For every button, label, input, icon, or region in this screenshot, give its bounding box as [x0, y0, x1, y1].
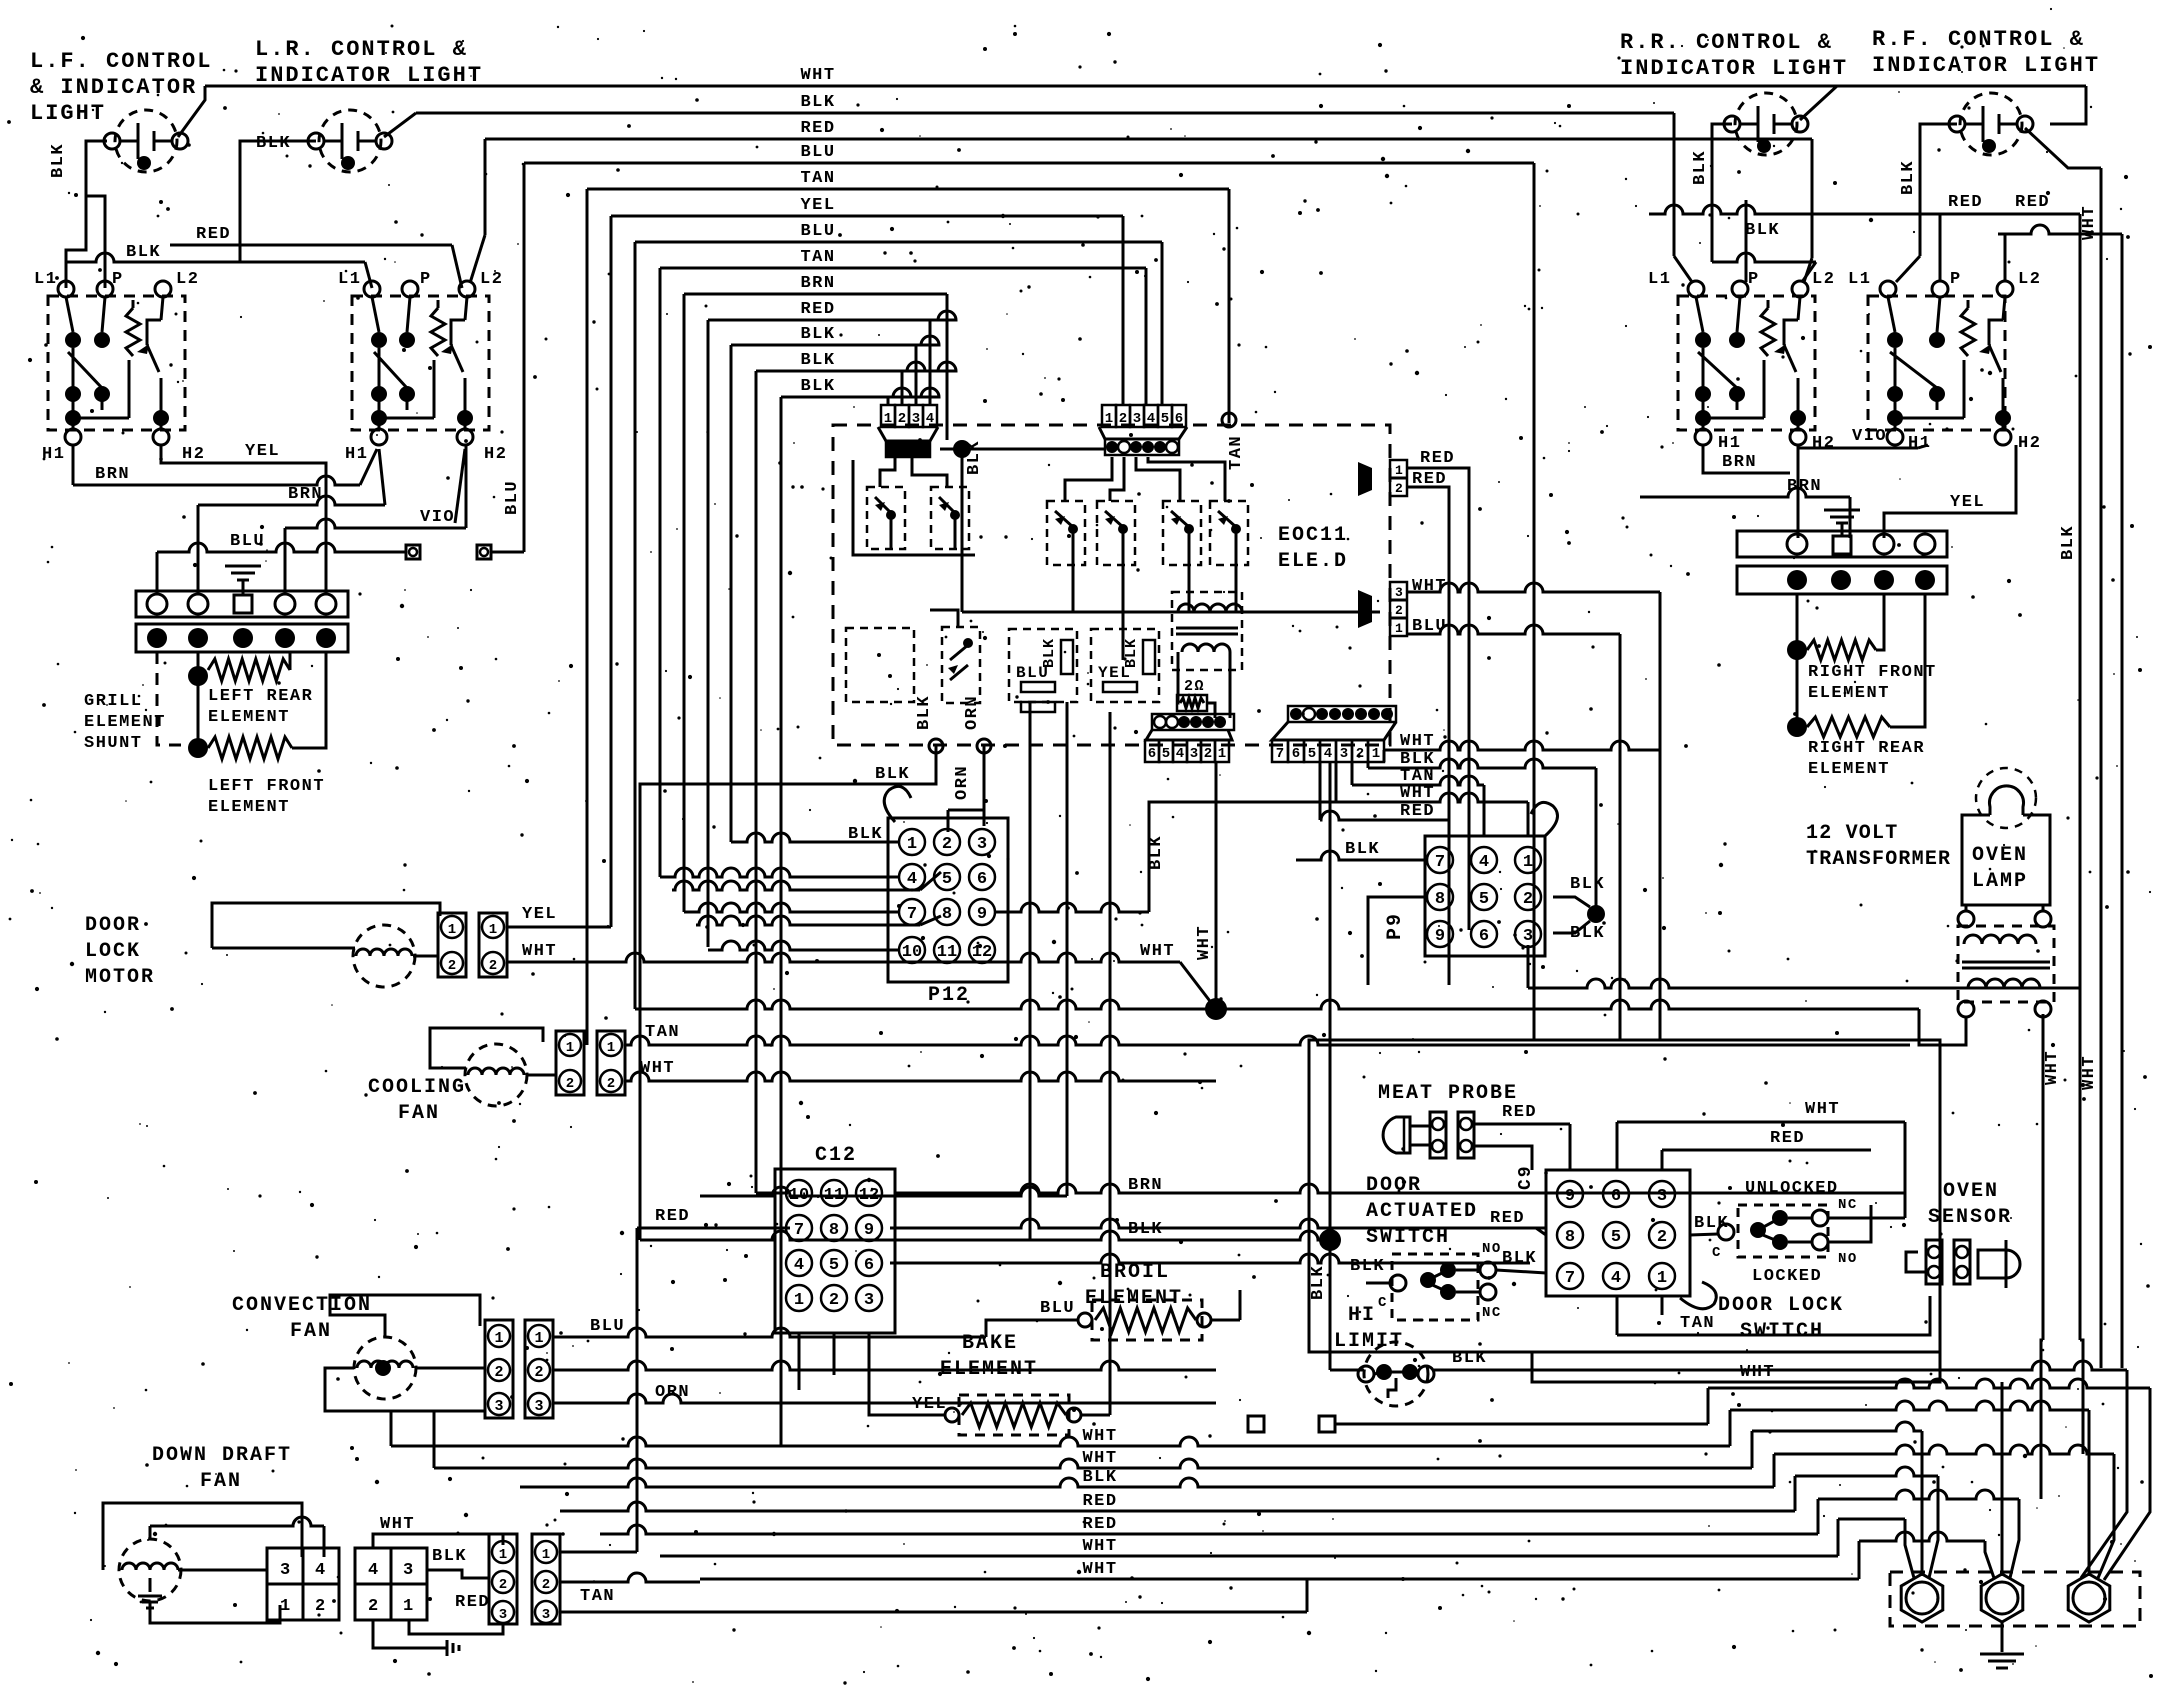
- wire fan coil link: [526, 1074, 556, 1077]
- svg-text:L.R. CONTROL &: L.R. CONTROL &: [255, 37, 468, 62]
- label DOOR LOCK SWITCH: [1718, 1294, 1844, 1343]
- svg-text:P: P: [112, 270, 124, 289]
- svg-text:4: 4: [1324, 746, 1332, 762]
- wire C9 pin1 down: [1661, 1296, 1664, 1315]
- svg-text:2: 2: [829, 1291, 839, 1310]
- svg-text:6: 6: [1148, 746, 1156, 762]
- svg-text:WHT: WHT: [380, 1515, 415, 1534]
- wire BLK bus right drop3: [915, 345, 918, 404]
- oven lamp bulb: [1976, 768, 2036, 828]
- wire C12 pin1 down: [798, 1333, 801, 1390]
- label L.F. CONTROL & INDICATOR LIGHT: [30, 49, 212, 126]
- label MEAT PROBE: [1378, 1082, 1518, 1105]
- svg-text:2: 2: [534, 1364, 543, 1381]
- wire P9 lasso: [1531, 802, 1558, 836]
- svg-text:1: 1: [542, 1547, 550, 1563]
- svg-text:5: 5: [942, 870, 952, 889]
- svg-text:INDICATOR LIGHT: INDICATOR LIGHT: [1620, 56, 1848, 81]
- svg-text:1: 1: [403, 1597, 415, 1616]
- wire top bus TAN y=268: [660, 248, 1146, 268]
- svg-text:SHUNT: SHUNT: [84, 734, 143, 753]
- motor door lock: [353, 925, 415, 987]
- svg-text:BLK: BLK: [126, 243, 161, 262]
- lamp L.R. indicator: [308, 110, 392, 172]
- wire R.R. lamp left wire: [1712, 124, 1732, 190]
- wire C9 pin6 up: [1616, 1122, 1619, 1170]
- svg-text:L1: L1: [34, 270, 57, 289]
- label RED C9: [1490, 1209, 1525, 1228]
- svg-text:C: C: [1378, 1295, 1388, 1311]
- oven sensor plug: [1954, 1240, 1970, 1284]
- label L.R. CONTROL & INDICATOR LIGHT: [255, 37, 483, 88]
- connector door lock B: [479, 913, 507, 977]
- resistor RIGHT FRONT ELEMENT: [1807, 594, 1884, 660]
- wire TAN bus right drop: [1222, 189, 1246, 470]
- wire down draft loop2: [150, 1517, 324, 1557]
- svg-text:C: C: [1712, 1245, 1722, 1261]
- wire R.F. lamp left: [1896, 124, 1957, 282]
- wire VIO: [285, 445, 466, 594]
- svg-text:WHT: WHT: [1140, 942, 1175, 961]
- wire RED C12: [637, 1228, 790, 1552]
- wire top bus WHT y=86: [205, 66, 2086, 86]
- svg-text:1: 1: [907, 835, 917, 854]
- wire WHT door lock: [507, 942, 1216, 1009]
- svg-text:TRANSFORMER: TRANSFORMER: [1806, 848, 1951, 871]
- labels door lock NC NO C: [1712, 1197, 1858, 1267]
- label COOLING FAN: [368, 1076, 466, 1125]
- wire R.R. lamp right to WHT bus: [1800, 86, 1837, 120]
- label OVEN SENSOR: [1928, 1180, 2012, 1229]
- wire WHT long mid: [1216, 1000, 1966, 1045]
- wire EOC coil vertical 3: [1109, 712, 1112, 1415]
- wire EOC out drops: [1320, 750, 1384, 820]
- terminal strip left upper: [136, 591, 348, 617]
- label GRILL ELEMENT SHUNT: [84, 692, 166, 753]
- wire C12 pin2 down: [833, 1333, 836, 1375]
- wire RR P up: [1745, 200, 1748, 282]
- wire top bus RED y=320: [708, 300, 956, 320]
- svg-text:1: 1: [494, 1330, 503, 1347]
- svg-text:BLK: BLK: [875, 765, 910, 784]
- svg-text:TAN: TAN: [645, 1023, 680, 1042]
- svg-text:2: 2: [1523, 890, 1533, 909]
- wire hi limit BLK long: [1520, 1361, 2127, 1578]
- svg-text:2: 2: [315, 1597, 327, 1616]
- svg-text:RIGHT REAR: RIGHT REAR: [1808, 739, 1925, 758]
- connector down draft A: [267, 1548, 339, 1620]
- svg-text:DOOR LOCK: DOOR LOCK: [1718, 1294, 1844, 1317]
- meat probe jack: [1430, 1112, 1446, 1158]
- svg-text:6: 6: [1479, 927, 1489, 946]
- wire YEL bake: [905, 1408, 959, 1422]
- wire right vertical WHT: [2080, 168, 2101, 1368]
- svg-text:ELE.D: ELE.D: [1278, 550, 1348, 573]
- wire RED down draft: [409, 1620, 503, 1634]
- wire BRN LF-H1: [73, 445, 360, 485]
- wire squares line: [1248, 1416, 1708, 1432]
- wire TAN bottom: [560, 1579, 1307, 1612]
- wire BLK bus right drop4: [901, 371, 904, 404]
- label DOOR LOCK MOTOR: [85, 914, 155, 989]
- wire C12 pin3 down: [868, 1333, 871, 1360]
- connector down draft B: [355, 1548, 427, 1620]
- label HI LIMIT: [1334, 1304, 1404, 1353]
- svg-text:7: 7: [907, 905, 917, 924]
- svg-text:WHT: WHT: [1082, 1449, 1117, 1468]
- svg-text:3: 3: [499, 1607, 507, 1623]
- wire EOC out WHT y=750: [1384, 732, 1660, 751]
- wire BLK long: [640, 1220, 1330, 1240]
- svg-text:YEL: YEL: [912, 1395, 947, 1414]
- wire top bus BLU y=242: [635, 222, 1162, 242]
- wire EOC out RED y=820: [1320, 802, 1449, 821]
- svg-text:RED: RED: [1948, 193, 1983, 212]
- svg-text:6: 6: [1292, 746, 1300, 762]
- svg-text:4: 4: [315, 1561, 327, 1580]
- wire RR BLK link: [1712, 190, 1816, 262]
- label H1 H2 RR: [1718, 434, 1835, 453]
- label LEFT FRONT ELEMENT: [208, 777, 325, 817]
- transformer terminals: [1958, 911, 2051, 1017]
- wire to P12 pin8 diag: [696, 916, 941, 925]
- svg-text:4: 4: [926, 411, 934, 427]
- svg-text:2: 2: [1119, 411, 1127, 427]
- label TAN bottom: [580, 1587, 615, 1606]
- wire broil right: [1239, 1290, 1242, 1320]
- svg-text:WHT: WHT: [800, 66, 835, 85]
- svg-text:EOC11: EOC11: [1278, 524, 1348, 547]
- down draft ground: [138, 1578, 162, 1608]
- hex terminal 1: [1901, 1574, 1943, 1622]
- svg-text:UNLOCKED: UNLOCKED: [1745, 1179, 1839, 1198]
- svg-text:BROIL: BROIL: [1100, 1261, 1170, 1284]
- svg-text:11: 11: [937, 943, 957, 962]
- svg-text:L2: L2: [1812, 270, 1835, 289]
- label C12: [815, 1144, 857, 1167]
- wire YEL bus right drop2: [1122, 216, 1125, 404]
- junction BLK dot: [1319, 1229, 1341, 1251]
- terminal strip left lower: [136, 624, 348, 652]
- svg-text:LAMP: LAMP: [1972, 870, 2028, 893]
- label L1 P L2 RR: [1648, 270, 1835, 289]
- svg-text:LEFT FRONT: LEFT FRONT: [208, 777, 325, 796]
- svg-text:1: 1: [884, 411, 892, 427]
- svg-text:H2: H2: [182, 445, 205, 464]
- label RED meat probe: [1502, 1103, 1537, 1122]
- wire top bus BLK y=345: [731, 325, 939, 345]
- svg-text:RED: RED: [1770, 1129, 1805, 1148]
- wire C9 pin9 up: [1569, 1124, 1572, 1170]
- label 12 VOLT TRANSFORMER: [1806, 822, 1951, 871]
- svg-text:H2: H2: [2018, 434, 2041, 453]
- switch box R.F. control: [1868, 281, 2013, 445]
- label CONVECTION FAN: [232, 1294, 372, 1343]
- wire bus left vertical x=781: [780, 397, 783, 1446]
- svg-text:COOLING: COOLING: [368, 1076, 466, 1099]
- svg-text:BLK: BLK: [1082, 1468, 1117, 1487]
- svg-text:2: 2: [368, 1597, 380, 1616]
- svg-text:YEL: YEL: [1950, 493, 1985, 512]
- EOC transformer wires: [1177, 652, 1230, 718]
- wire bus left vertical x=635: [634, 242, 637, 1009]
- svg-text:WHT: WHT: [2043, 1050, 2062, 1085]
- wire BLK to P9 dot vertical: [1595, 768, 1598, 914]
- svg-text:R.F. CONTROL &: R.F. CONTROL &: [1872, 27, 2085, 52]
- svg-text:RED: RED: [1490, 1209, 1525, 1228]
- EOC 2ohm resistor: [1177, 678, 1207, 711]
- wire BLK junction EOC: [940, 440, 1105, 458]
- svg-text:3: 3: [403, 1561, 415, 1580]
- svg-text:C9: C9: [1516, 1164, 1536, 1190]
- svg-text:7: 7: [794, 1221, 804, 1240]
- wire bottom bus WHT y=1446: [391, 1427, 1730, 1446]
- wire door actuated NO: [1496, 1249, 1546, 1273]
- connector EOC right 321: [1358, 582, 1407, 636]
- svg-text:ORN: ORN: [963, 695, 982, 730]
- connector cooling fan A: [556, 1031, 584, 1095]
- ground symbol right strip: [1824, 510, 1860, 536]
- label BLK rotated RF2: [1899, 160, 1918, 195]
- svg-text:RED: RED: [1082, 1515, 1117, 1534]
- svg-text:ELEMENT: ELEMENT: [1808, 760, 1890, 779]
- svg-text:ELEMENT: ELEMENT: [940, 1358, 1038, 1381]
- wire C12 pin6 right: [890, 1254, 1530, 1263]
- connector EOC top B 1-6: [1099, 405, 1187, 455]
- wire bus left vertical x=660: [659, 268, 662, 877]
- svg-text:BLU: BLU: [1040, 1299, 1075, 1318]
- wire L.R. lamp right to BLK bus: [384, 113, 416, 137]
- svg-text:BLK: BLK: [1502, 1249, 1537, 1268]
- svg-text:1: 1: [1105, 411, 1113, 427]
- connector C12: [775, 1169, 895, 1333]
- svg-text:SENSOR: SENSOR: [1928, 1206, 2012, 1229]
- label R.F. CONTROL & INDICATOR LIGHT: [1872, 27, 2100, 78]
- connector P12: [888, 818, 1008, 982]
- wire RED bus right drop: [1804, 139, 1812, 282]
- wire 3pin B pin2 right: [560, 1573, 700, 1582]
- svg-text:RED: RED: [800, 119, 835, 138]
- wire BRN bus right drop: [946, 294, 949, 440]
- svg-text:BLK: BLK: [800, 377, 835, 396]
- svg-text:2: 2: [1395, 481, 1404, 496]
- svg-text:L1: L1: [1648, 270, 1671, 289]
- label LEFT REAR ELEMENT: [208, 687, 313, 727]
- wire oven sensor left: [1906, 1252, 1926, 1272]
- svg-text:2: 2: [1204, 746, 1212, 762]
- svg-text:BLK: BLK: [1452, 1349, 1487, 1368]
- svg-text:2: 2: [607, 1076, 615, 1092]
- svg-text:7: 7: [1276, 746, 1284, 762]
- wire top bus RED y=139: [485, 119, 1812, 139]
- svg-text:2: 2: [942, 835, 952, 854]
- label LOCKED: [1752, 1267, 1822, 1286]
- svg-text:INDICATOR LIGHT: INDICATOR LIGHT: [255, 63, 483, 88]
- svg-text:YEL: YEL: [245, 442, 280, 461]
- door lock switch dashed box: [1738, 1205, 1828, 1257]
- label WHT down draft: [380, 1515, 415, 1534]
- label YEL WHT door lock: [522, 905, 557, 961]
- relay K1 K2 left pair: [853, 441, 975, 555]
- svg-text:GRILL: GRILL: [84, 692, 143, 711]
- wire P9 pin2 dot: [1553, 875, 1605, 907]
- svg-text:DOOR: DOOR: [1366, 1174, 1422, 1197]
- svg-text:6: 6: [1175, 411, 1183, 427]
- wire BLU broil: [1045, 1313, 1092, 1327]
- wire YEL door lock: [507, 926, 611, 929]
- svg-text:BLK: BLK: [1041, 638, 1058, 668]
- wire L.R. lamp left wire: [240, 141, 316, 262]
- EOC11 board dashed box: [833, 425, 1390, 745]
- svg-text:L1: L1: [338, 270, 361, 289]
- wire 756 to C12 pin10: [756, 1192, 788, 1195]
- label BLK door actuated: [1350, 1257, 1385, 1276]
- wire right front leg: [1787, 594, 1807, 660]
- wire BLK bus right drop5: [887, 397, 890, 404]
- relay feeds: [1065, 457, 1225, 501]
- wire RED RR to RF: [1649, 193, 2080, 214]
- wire diag VIO: [455, 449, 465, 523]
- label EOC11 ELE.D: [1278, 524, 1348, 573]
- svg-text:BLK: BLK: [1745, 221, 1780, 240]
- wire BRN2 drop: [1849, 497, 1852, 538]
- resistor BROIL ELEMENT: [1092, 1300, 1240, 1340]
- connector bottom 3pin B: [532, 1534, 560, 1624]
- wire RED doorlock: [1662, 1129, 1871, 1150]
- svg-text:1: 1: [607, 1040, 615, 1056]
- svg-text:8: 8: [1435, 890, 1445, 909]
- svg-text:BRN: BRN: [800, 274, 835, 293]
- wire to P12 pin4: [660, 868, 899, 877]
- svg-text:WHT: WHT: [1082, 1427, 1117, 1446]
- label BLK P12: [848, 825, 883, 844]
- wire BLU strip: [157, 532, 524, 559]
- wire EOC coil vertical 1: [1029, 702, 1032, 1240]
- svg-text:4: 4: [794, 1256, 804, 1275]
- wire BLK EOC drop: [640, 695, 943, 1240]
- relay aux empty box: [846, 628, 914, 702]
- wire YEL RF-H2: [1884, 445, 2016, 538]
- svg-text:1: 1: [448, 922, 456, 938]
- svg-text:BLK: BLK: [256, 134, 291, 153]
- svg-text:BAKE: BAKE: [962, 1332, 1018, 1355]
- junction dot P9: [1587, 905, 1605, 923]
- svg-text:5: 5: [829, 1256, 839, 1275]
- svg-text:BLK: BLK: [1309, 1265, 1328, 1300]
- wire BLK down draft: [427, 1570, 489, 1578]
- svg-text:2: 2: [448, 958, 456, 974]
- label BLK rotated EOC: [965, 440, 984, 475]
- svg-text:3: 3: [1190, 746, 1198, 762]
- wire to P12 pin1: [731, 833, 899, 842]
- wire lamp to transformer: [1966, 905, 2043, 911]
- svg-text:OVEN: OVEN: [1943, 1180, 1999, 1203]
- wire top bus BLK y=113: [416, 93, 1674, 113]
- label WHT mid: [0, 0, 1, 1]
- label RED C12: [655, 1207, 690, 1226]
- wire right vertical 3: [2121, 234, 2124, 1300]
- svg-text:3: 3: [864, 1291, 874, 1310]
- label RED doorlock: [0, 0, 1, 1]
- connector EOC bottom 7-1: [1272, 706, 1396, 762]
- svg-text:4: 4: [368, 1561, 380, 1580]
- svg-text:VIO: VIO: [420, 508, 455, 527]
- wire meat probe low: [1474, 1146, 1532, 1170]
- oven sensor bulb: [1978, 1240, 2020, 1288]
- svg-text:2Ω: 2Ω: [1184, 678, 1205, 695]
- svg-text:RED: RED: [1502, 1103, 1537, 1122]
- wire BLK junction down: [1329, 762, 1332, 1366]
- hex terminal 3: [2068, 1574, 2110, 1622]
- svg-text:3: 3: [534, 1398, 543, 1415]
- wire down draft bottom: [150, 1601, 280, 1623]
- wire bus left vertical x=611: [610, 216, 613, 927]
- wire C12 pin9 right: [890, 1219, 1546, 1235]
- svg-text:BLK: BLK: [1147, 835, 1166, 870]
- svg-text:BLU: BLU: [800, 222, 835, 241]
- wire strip1 up: [156, 552, 159, 594]
- wire L.F. lamp to WHT bus: [178, 86, 205, 137]
- wire bus left vertical x=684: [683, 294, 686, 912]
- wire hex feeds from staircase: [1905, 1382, 2150, 1580]
- wire BRN long: [700, 1176, 1163, 1196]
- label DOOR ACTUATED SWITCH: [1366, 1174, 1478, 1249]
- wire hi limit left: [1330, 1366, 1364, 1370]
- label L1 P L2 LR: [338, 270, 503, 289]
- svg-text:BRN: BRN: [288, 485, 323, 504]
- svg-text:RED: RED: [1400, 802, 1435, 821]
- svg-text:C12: C12: [815, 1144, 857, 1167]
- svg-text:BLK: BLK: [49, 143, 68, 178]
- svg-text:NO: NO: [1482, 1241, 1502, 1257]
- wire WHT eoc: [1407, 583, 1660, 1040]
- svg-text:RIGHT FRONT: RIGHT FRONT: [1808, 663, 1937, 682]
- svg-text:H1: H1: [1908, 434, 1931, 453]
- terminal strip right upper: [1737, 531, 1947, 557]
- svg-text:RED: RED: [196, 225, 231, 244]
- label WHT BLU eoc: [1412, 577, 1447, 636]
- connector EOC right 12: [1358, 460, 1407, 496]
- svg-text:1: 1: [489, 922, 497, 938]
- svg-text:8: 8: [942, 905, 952, 924]
- wire to P12 pin7: [684, 903, 899, 912]
- svg-text:BRN: BRN: [95, 465, 130, 484]
- motor down draft fan: [119, 1539, 181, 1601]
- svg-text:5: 5: [1161, 411, 1169, 427]
- motor cooling fan: [465, 1044, 527, 1106]
- svg-text:RED: RED: [1082, 1492, 1117, 1511]
- svg-text:5: 5: [1611, 1228, 1621, 1247]
- wire RED2 right: [1998, 225, 2122, 234]
- wire RF L2 up: [2004, 234, 2007, 282]
- connector EOC bottom 6-1: [1145, 714, 1234, 762]
- wire door actuated BLK: [1366, 1282, 1390, 1285]
- wire P9 pin8 left: [1368, 897, 1427, 985]
- svg-text:3: 3: [1657, 1187, 1667, 1206]
- svg-text:8: 8: [1565, 1228, 1575, 1247]
- wire BLK bus right drop: [1674, 113, 1692, 282]
- wire 3pin B pin1 up: [560, 1551, 637, 1554]
- svg-text:BLK: BLK: [800, 351, 835, 370]
- wire convection pin2: [553, 1361, 1216, 1370]
- svg-text:ELEMENT: ELEMENT: [84, 713, 166, 732]
- wire down draft coil right: [178, 1569, 267, 1572]
- wire ORN EOC drop: [948, 695, 991, 832]
- svg-text:LIGHT: LIGHT: [30, 101, 106, 126]
- svg-text:L1: L1: [1848, 270, 1871, 289]
- wire P9 pin9 down: [1528, 945, 2080, 988]
- wire top bus BLK y=397: [781, 377, 939, 397]
